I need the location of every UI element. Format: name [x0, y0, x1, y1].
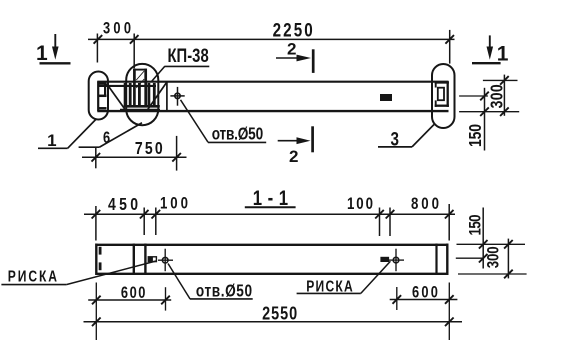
dim line D (300) — [503, 75, 505, 116]
dim line B (300) — [507, 239, 509, 279]
svg-text:РИСКА: РИСКА — [306, 277, 353, 295]
svg-text:450: 450 — [108, 194, 138, 214]
dimension 600 right — [390, 284, 458, 310]
dimension 600 left — [88, 285, 171, 311]
label otv.50 top view — [181, 100, 267, 144]
section title 1-1 — [245, 187, 296, 210]
balloon around left end bracket — [89, 72, 108, 120]
vertical rebars in KP-38 detail — [125, 83, 154, 107]
balloon around KP-38 detail — [126, 64, 158, 125]
beam bottom extension — [458, 273, 527, 275]
label 1 (leader to left balloon) — [38, 119, 97, 151]
svg-text:800: 800 — [411, 194, 439, 213]
svg-text:300: 300 — [487, 84, 507, 108]
bottom view: top dimension line — [84, 213, 455, 215]
tick at 449.7 — [445, 35, 454, 44]
svg-text:150: 150 — [465, 124, 485, 147]
tick at 97.9 — [94, 35, 103, 44]
beam top extension — [483, 79, 518, 81]
beam top view: top edge — [97, 81, 448, 83]
KP-38 plate above beam — [133, 69, 147, 107]
svg-text:РИСКА: РИСКА — [8, 267, 57, 285]
riska mark left (1-1) — [148, 257, 156, 262]
svg-text:2: 2 — [289, 147, 298, 166]
right side dims of top view: hole centerline extension — [459, 95, 488, 97]
svg-text:600: 600 — [121, 285, 146, 303]
svg-text:1: 1 — [47, 131, 56, 150]
tick 390 — [386, 210, 395, 219]
section marker 2 bottom — [278, 126, 313, 166]
extension line left of 300 — [96, 34, 98, 63]
dimension 2550 — [84, 283, 463, 341]
dimension 750 — [82, 136, 187, 171]
svg-text:2250: 2250 — [273, 18, 313, 40]
hole (otv 50) in top view — [170, 87, 184, 106]
triangle right of KP-38: vertical side — [166, 82, 168, 111]
tick 155.8 — [152, 210, 161, 219]
svg-text:600: 600 — [412, 284, 438, 302]
tick 95.9 — [92, 210, 101, 219]
right side dims of bottom view: beam top extension — [457, 243, 526, 245]
tick 379.5 — [375, 210, 384, 219]
extension line right of 2250 — [449, 30, 451, 64]
end notches left — [99, 247, 102, 255]
left end bracket detail (item 1) — [98, 81, 107, 111]
label riska left — [1, 261, 156, 285]
tick at 134.2 — [130, 35, 139, 44]
riska mark right (1-1) — [380, 257, 389, 262]
label otv.50 bottom — [168, 264, 253, 301]
section marker 1 top-right — [472, 35, 509, 65]
label 3 (leader to right balloon) — [378, 125, 434, 150]
extension line right of 300 — [133, 34, 135, 69]
triangle right of KP-38: hypotenuse — [147, 82, 167, 111]
horizontal bar below beam top — [99, 85, 156, 87]
svg-text:100: 100 — [347, 194, 373, 213]
dim line A (150) — [482, 208, 484, 269]
tick 144.2 — [140, 210, 149, 219]
tick 449.2 — [445, 210, 454, 219]
svg-text:отв.Ø50: отв.Ø50 — [196, 282, 252, 301]
svg-text:2: 2 — [287, 40, 296, 59]
beam bottom view (1-1) — [96, 244, 448, 276]
label riska middle — [297, 261, 391, 295]
svg-text:100: 100 — [160, 194, 188, 213]
horizontal bottom band of KP-38 — [124, 105, 160, 108]
section marker 1 top-left — [36, 34, 71, 65]
balloon around right end bracket — [432, 64, 455, 128]
svg-text:150: 150 — [466, 214, 485, 235]
hole left (1-1) — [158, 249, 173, 272]
dim line C (150) — [484, 88, 486, 151]
svg-text:1: 1 — [36, 42, 48, 65]
ticks bottom view right — [479, 240, 488, 249]
hole centerline extension — [456, 257, 484, 259]
svg-text:отв.Ø50: отв.Ø50 — [212, 125, 264, 144]
section marker 2 top — [276, 40, 313, 73]
svg-text:1: 1 — [497, 43, 509, 66]
beam bottom extension — [459, 111, 519, 113]
svg-text:300: 300 — [484, 246, 503, 268]
descending diagonal at left end — [107, 84, 127, 111]
beam top view: bottom edge — [97, 110, 448, 112]
svg-text:КП-38: КП-38 — [168, 45, 209, 66]
label 6 (leader to KP-38 balloon) — [79, 123, 142, 148]
hole right (1-1) — [389, 249, 405, 272]
extension lines — [95, 206, 97, 241]
label KP-38 — [152, 45, 210, 81]
dimension line top (300 / 2250) — [88, 38, 455, 40]
svg-text:750: 750 — [135, 138, 163, 158]
right end bracket detail (item 3) — [435, 81, 449, 107]
ticks top view right — [480, 92, 489, 101]
svg-text:3: 3 — [391, 127, 400, 149]
svg-text:2550: 2550 — [262, 303, 297, 324]
svg-text:300: 300 — [103, 20, 131, 38]
svg-text:6: 6 — [103, 130, 110, 148]
riska mark in top view — [380, 94, 392, 101]
